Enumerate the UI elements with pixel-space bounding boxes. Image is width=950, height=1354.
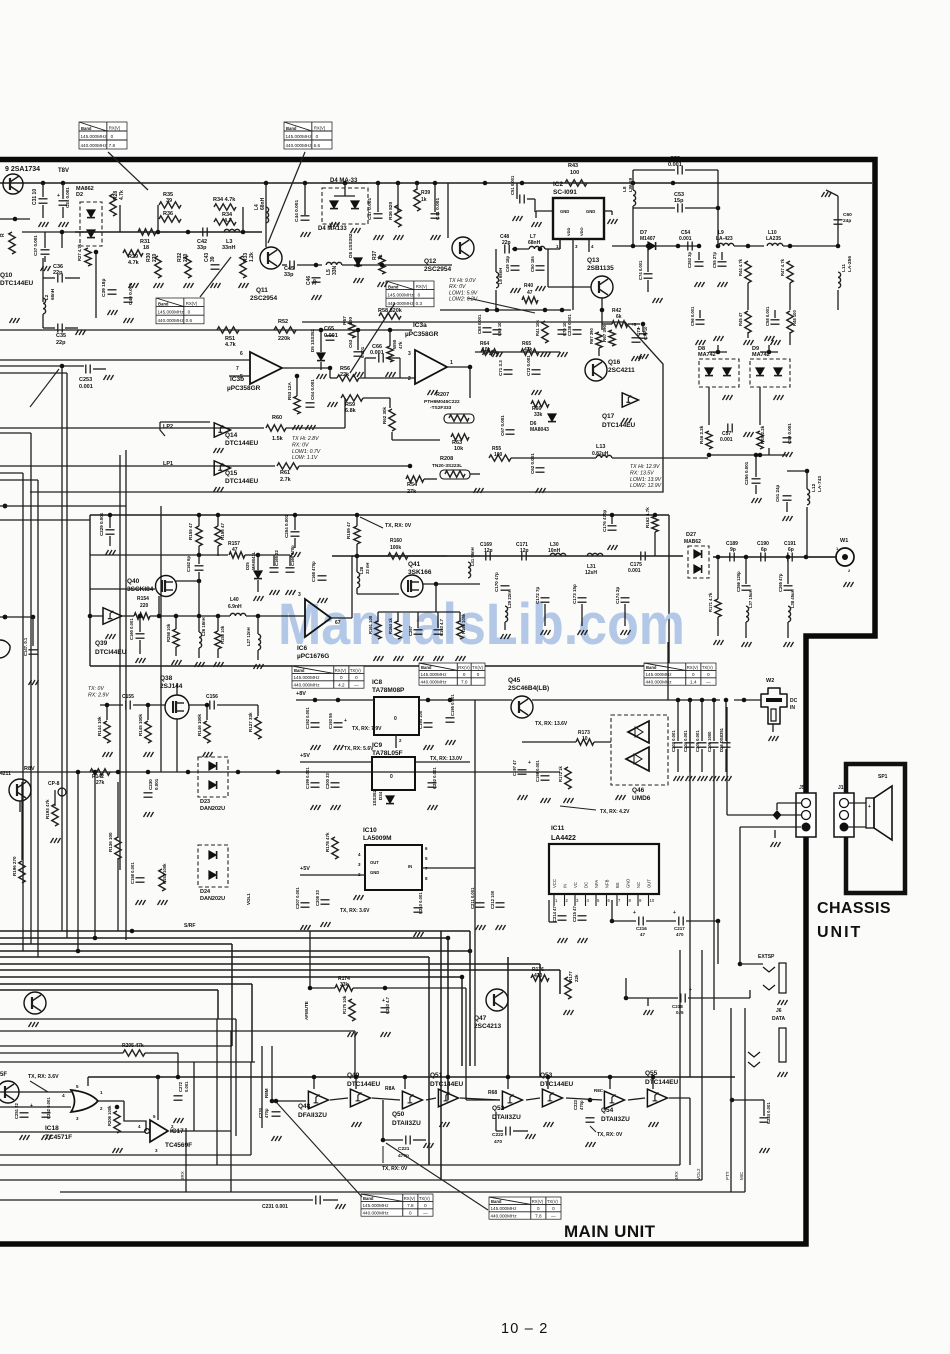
svg-text:DATA: DATA [772, 1016, 786, 1022]
ground [649, 1122, 659, 1127]
capacitor C34 0.001 [59, 201, 68, 205]
ground [354, 278, 364, 283]
ground [174, 1118, 184, 1123]
resistor R165 100k [457, 621, 463, 639]
op-amp IC3a uPC358GR [415, 350, 447, 384]
junction [176, 1075, 181, 1080]
wire [416, 183, 418, 190]
wire [177, 1053, 179, 1077]
svg-text:D5 1SS352: D5 1SS352 [310, 328, 315, 352]
junction [157, 614, 162, 619]
svg-text:18: 18 [143, 245, 149, 251]
svg-text:68nH: 68nH [50, 289, 55, 300]
wire L12 to row [806, 507, 808, 557]
junction [754, 453, 759, 458]
svg-text:10: 10 [642, 330, 647, 336]
junction [216, 513, 221, 518]
capacitor C169 12p [486, 552, 490, 561]
wire to IC17 [124, 1101, 146, 1131]
wire [760, 351, 778, 353]
wire [44, 256, 46, 262]
ground [501, 634, 511, 639]
wire [65, 277, 80, 279]
junction [700, 698, 705, 703]
wire mixer out [612, 245, 700, 247]
voltage table T9 [489, 1197, 561, 1219]
ground [424, 745, 434, 750]
junction [380, 263, 385, 268]
junction [520, 181, 525, 186]
svg-text:+5: +5 [631, 322, 637, 327]
wire [727, 814, 801, 816]
svg-text:TX, RX: 0V: TX, RX: 0V [385, 523, 412, 529]
wire [160, 422, 165, 436]
wire Q13 base [548, 286, 591, 288]
resistor R177 22k [565, 977, 571, 999]
resistor R67 390 [596, 332, 602, 348]
wire [768, 345, 770, 352]
wire [783, 245, 838, 247]
wire [408, 555, 447, 557]
svg-text:1.4: 1.4 [690, 679, 697, 684]
svg-text:R34 4.7k: R34 4.7k [213, 197, 236, 203]
ground [493, 352, 503, 357]
svg-text:GND: GND [560, 209, 569, 214]
wire [320, 362, 322, 370]
ground [394, 656, 404, 661]
junction [396, 181, 401, 186]
svg-text:39: 39 [210, 256, 216, 262]
junction [236, 770, 241, 775]
wire [837, 205, 839, 246]
svg-text:4: 4 [591, 244, 594, 249]
ground [536, 488, 546, 493]
capacitor C220 470p [272, 1112, 281, 1116]
svg-text:TX(V): TX(V) [472, 665, 484, 670]
junction [336, 698, 341, 703]
diode D7 M1407 [648, 242, 656, 250]
wire driver links [330, 1098, 348, 1100]
svg-text:+: + [868, 804, 871, 810]
wire Q41 drain down [435, 584, 437, 612]
diode D2 MA862 [80, 202, 102, 246]
svg-text:470: 470 [534, 973, 543, 979]
wire [0, 1052, 123, 1054]
junction [836, 244, 841, 249]
capacitor C194 100 [424, 723, 433, 727]
leader to table T8 [277, 1103, 362, 1197]
wire [786, 502, 788, 512]
svg-text:L12: L12 [811, 483, 817, 492]
junction [495, 308, 500, 313]
svg-text:Q55: Q55 [645, 1070, 658, 1077]
junction [716, 919, 721, 924]
svg-text:C73: C73 [636, 327, 641, 336]
svg-text:R36 820: R36 820 [388, 202, 394, 220]
junction diamond [773, 810, 782, 820]
ground [771, 842, 781, 847]
junction [671, 181, 676, 186]
svg-text:C170 47p: C170 47p [494, 572, 499, 592]
svg-text:22k: 22k [574, 974, 579, 982]
transistor Q49 DTC144EU [350, 1089, 370, 1107]
resistor R47 4.7k [787, 261, 793, 283]
svg-text:2: 2 [408, 376, 411, 382]
wire [646, 920, 676, 922]
wire [198, 648, 200, 658]
wire [175, 647, 177, 656]
resistor R160 100k [388, 553, 408, 559]
svg-text:R43: R43 [568, 163, 578, 169]
svg-text:C218: C218 [672, 1004, 683, 1009]
svg-text:Q17: Q17 [602, 413, 615, 420]
svg-text:0: 0 [340, 675, 343, 680]
voltage table T8 [361, 1194, 433, 1216]
svg-text:TX Hi: 12.9VRX: 13.5VLOW1: 13.: TX Hi: 12.9VRX: 13.5VLOW1: 13.9VLOW2: 12… [630, 464, 662, 489]
junction [355, 554, 360, 559]
capacitor C65 0.001 [326, 336, 335, 340]
svg-text:R158 10k: R158 10k [220, 625, 225, 644]
capacitor C35 22p [58, 324, 62, 333]
resistor R136 100 [115, 837, 121, 859]
svg-text:0: 0 [355, 675, 358, 680]
svg-text:DTC144EU: DTC144EU [540, 1081, 574, 1088]
transistor Q52 DTA113ZU [502, 1091, 522, 1109]
junction [434, 582, 439, 587]
transistor Q16 2SC4211 [585, 359, 607, 381]
ground [195, 662, 205, 667]
wire [356, 515, 358, 526]
svg-text:33 nH: 33 nH [365, 563, 370, 574]
svg-text:3RX: 3RX [180, 1171, 185, 1180]
ground [286, 590, 296, 595]
ground [270, 590, 280, 595]
leader arrow [30, 369, 59, 407]
junction [697, 244, 702, 249]
wire [42, 258, 44, 302]
ground [621, 630, 631, 635]
transistor Q38 2SJ144 [165, 695, 189, 719]
wire [633, 207, 675, 209]
svg-text:C173 15p: C173 15p [572, 584, 577, 604]
inductor L27 12nH [258, 634, 261, 650]
transistor Q40 3SCK184 [156, 576, 177, 597]
wire bias rail [88, 1076, 735, 1078]
capacitor C256 0.001 [752, 479, 761, 483]
svg-text:R196 270: R196 270 [12, 856, 17, 876]
transistor module Q46 UMD6 [611, 715, 668, 785]
svg-text:—: — [354, 682, 359, 687]
wire [465, 1066, 467, 1100]
svg-text:+8V: +8V [296, 691, 306, 697]
svg-text:27k: 27k [407, 489, 417, 495]
svg-text:R57: R57 [342, 316, 348, 325]
capacitor C267 [414, 630, 423, 634]
svg-text:Band: Band [363, 1196, 374, 1201]
svg-text:TX, RX: 7.9V: TX, RX: 7.9V [352, 726, 382, 732]
junction [314, 263, 319, 268]
wire [296, 376, 298, 396]
ground [784, 642, 794, 647]
wire [109, 536, 111, 546]
capacitor C49 18p [511, 266, 520, 270]
capacitor C263 3p [695, 262, 704, 266]
svg-text:Band: Band [646, 665, 657, 670]
svg-text:Band: Band [286, 126, 297, 131]
svg-text:145.000MHz: 145.000MHz [81, 134, 108, 139]
transistor Q50 DTA113ZU [402, 1091, 422, 1109]
svg-text:L37 15uH: L37 15uH [748, 589, 753, 608]
inductor L3 33nH [224, 229, 240, 232]
capacitor C252 0.001 [42, 1113, 51, 1117]
wire +8V top rail [0, 182, 448, 184]
wire mid verticals to bus [77, 772, 79, 951]
transistor Q17 DTC144EU [622, 393, 638, 407]
ground [336, 1204, 346, 1209]
svg-text:8: 8 [425, 876, 428, 881]
svg-text:L8: L8 [622, 186, 628, 192]
svg-text:VC: VC [573, 882, 578, 888]
svg-text:RX(V): RX(V) [532, 1199, 544, 1204]
wire gate in1 [0, 1091, 71, 1093]
svg-text:TN20-3S223L: TN20-3S223L [432, 463, 462, 469]
transistor left edge [0, 1081, 19, 1103]
junction [241, 230, 246, 235]
wire [90, 554, 228, 556]
junction [270, 1099, 275, 1104]
wire [475, 699, 512, 701]
wire Q13 collector [601, 298, 603, 330]
ground [124, 318, 134, 323]
capacitor C262 0.001 [428, 783, 437, 787]
svg-text:1: 1 [556, 244, 559, 249]
svg-text:Q41: Q41 [408, 561, 421, 568]
capacitor C73 10 [632, 338, 641, 342]
svg-text:C68 0.001: C68 0.001 [477, 314, 482, 334]
capacitor C221 470 [406, 1136, 410, 1145]
svg-text:2.7k: 2.7k [280, 477, 292, 483]
wire 5V2 [300, 874, 365, 876]
svg-text:10: 10 [582, 736, 588, 742]
wire [198, 616, 200, 632]
junction [538, 247, 543, 252]
junction [197, 579, 202, 584]
ground [686, 776, 696, 781]
svg-text:L27 12nH: L27 12nH [246, 627, 251, 646]
svg-text:IC11: IC11 [551, 825, 565, 832]
junction [197, 614, 202, 619]
svg-text:RX(V): RX(V) [314, 126, 326, 131]
svg-text:3SK166: 3SK166 [408, 569, 432, 576]
capacitor C44 0.001 [301, 216, 310, 220]
wire [242, 207, 244, 232]
resistor R142 27k [90, 769, 110, 775]
svg-text:MIC: MIC [739, 1171, 744, 1180]
svg-text:C40 0.001: C40 0.001 [128, 283, 134, 305]
svg-text:C215 47: C215 47 [572, 905, 577, 922]
diode module D8 MA742 [699, 359, 739, 387]
ground [254, 596, 264, 601]
svg-text:LA5009M: LA5009M [363, 835, 392, 842]
wire [689, 749, 691, 772]
resistor R55 100 [489, 455, 511, 461]
svg-text:R207: R207 [436, 392, 449, 398]
svg-text:C263 3p: C263 3p [687, 251, 692, 268]
svg-text:R54: R54 [407, 482, 418, 488]
svg-text:DTAII3ZU: DTAII3ZU [601, 1116, 630, 1123]
capacitor C39 18p [108, 290, 117, 294]
svg-text:+: + [30, 1103, 33, 1109]
junction [108, 513, 113, 518]
wire [701, 700, 703, 741]
ground [113, 1148, 123, 1153]
capacitor C67 0.001 [506, 430, 515, 434]
ground [394, 235, 404, 240]
diode D34 1SS352 [386, 796, 394, 804]
transistor Q53 DTC144EU [542, 1089, 562, 1107]
capacitor C31 10 [39, 199, 48, 203]
svg-text:Q15: Q15 [225, 470, 238, 477]
svg-text:DTC144EU: DTC144EU [225, 440, 259, 447]
capacitor C174 2p [621, 598, 630, 602]
svg-text:C207 0.001: C207 0.001 [295, 887, 300, 909]
capacitor C204 0.001 [686, 743, 695, 747]
svg-text:Q45: Q45 [508, 677, 521, 684]
ground [203, 752, 213, 757]
inductor L37 15uH [746, 606, 749, 622]
svg-text:440.000MHz: 440.000MHz [421, 679, 448, 684]
wire [145, 1052, 178, 1054]
junction [560, 308, 565, 313]
svg-text:C224 0.001: C224 0.001 [766, 1102, 771, 1124]
svg-text:R45 47: R45 47 [738, 312, 743, 326]
leader arrow [360, 517, 383, 528]
leader [468, 298, 535, 313]
svg-text:R175 10k: R175 10k [342, 995, 347, 1014]
svg-text:R208: R208 [440, 456, 453, 462]
svg-text:0: 0 [692, 672, 695, 677]
capacitor C263 4.7 [381, 1008, 390, 1012]
svg-text:2: 2 [399, 738, 402, 743]
svg-text:R144 10k: R144 10k [97, 716, 102, 736]
svg-text:0.001: 0.001 [720, 437, 733, 443]
svg-text:AFMUTE: AFMUTE [304, 1001, 309, 1020]
svg-text:47: 47 [640, 932, 646, 937]
svg-text:C61 24p: C61 24p [775, 484, 780, 502]
wire [734, 245, 764, 247]
svg-text:TX, RX: 13.6V: TX, RX: 13.6V [535, 721, 568, 727]
svg-text:Q46: Q46 [632, 787, 645, 794]
ground [428, 390, 438, 395]
resistor R162 4.7k [652, 516, 658, 532]
ground [446, 740, 456, 745]
ground [558, 352, 568, 357]
ground [29, 680, 39, 685]
ground [644, 1010, 654, 1015]
resistor R61 2.7k [277, 463, 299, 469]
resistor R33 1.2k [240, 256, 246, 278]
resistor R48 100 [787, 311, 793, 333]
svg-text:D4 MA133: D4 MA133 [318, 226, 347, 232]
wire [837, 290, 839, 310]
resistor R41 10k [542, 321, 548, 343]
wire left stub [0, 218, 30, 220]
svg-text:7: 7 [236, 366, 239, 372]
ground [769, 736, 779, 741]
junction [156, 230, 161, 235]
ground [778, 1072, 788, 1077]
junction [483, 181, 488, 186]
svg-text:0.3: 0.3 [416, 301, 423, 306]
svg-text:10: 10 [650, 898, 655, 903]
capacitor C45 33p [290, 261, 294, 270]
svg-text:0: 0 [707, 672, 710, 677]
diode module D9 MA742 [750, 359, 790, 387]
junction [786, 555, 791, 560]
wire [699, 310, 701, 318]
svg-text:4: 4 [358, 852, 361, 857]
svg-text:C221: C221 [398, 1146, 410, 1152]
junction [355, 513, 360, 518]
svg-text:24p: 24p [843, 218, 851, 224]
ground [214, 662, 224, 667]
svg-text:5: 5 [425, 856, 428, 861]
resistor R62 30k [389, 409, 395, 431]
wire [749, 990, 751, 998]
svg-text:100: 100 [570, 170, 579, 176]
wire [774, 310, 776, 318]
svg-text:R36: R36 [163, 211, 173, 217]
ground [214, 448, 224, 453]
ground [783, 516, 793, 521]
ground [20, 1135, 30, 1140]
ground [272, 1136, 282, 1141]
svg-text:3: 3 [358, 862, 361, 867]
svg-text:270: 270 [183, 253, 189, 262]
junction [105, 703, 110, 708]
svg-text:22p: 22p [53, 270, 63, 276]
svg-text:D5 1SS352: D5 1SS352 [348, 233, 354, 258]
svg-text:9 2SA1734: 9 2SA1734 [5, 166, 40, 173]
svg-text:220k: 220k [278, 336, 291, 342]
svg-text:R162 4.7k: R162 4.7k [645, 507, 650, 528]
svg-text:145.000MHz: 145.000MHz [294, 675, 321, 680]
svg-text:C265 47p: C265 47p [778, 573, 783, 592]
chassis unit box [846, 764, 905, 893]
wire [437, 612, 439, 628]
svg-text:VDO: VDO [579, 227, 584, 236]
ground [778, 1000, 788, 1005]
wire [686, 920, 718, 922]
svg-text:IN: IN [563, 884, 568, 888]
svg-text:TX(V): TX(V) [702, 665, 714, 670]
wire mid-left horizontals [0, 505, 126, 507]
wire [286, 427, 345, 429]
wire R8V rail [0, 771, 560, 773]
svg-text:TC4569F: TC4569F [165, 1142, 192, 1149]
gate IC18 TC4571F [71, 1090, 98, 1112]
svg-text:4.7k: 4.7k [128, 260, 140, 266]
ground [541, 630, 551, 635]
svg-text:R67 390: R67 390 [589, 327, 594, 344]
capacitor C162 6p [195, 566, 204, 570]
ground [476, 925, 486, 930]
resistor R205 47k [123, 1050, 145, 1056]
wire [61, 232, 63, 248]
svg-text:RX(V): RX(V) [335, 668, 347, 673]
ground [10, 318, 20, 323]
svg-text:0: 0 [390, 774, 393, 780]
